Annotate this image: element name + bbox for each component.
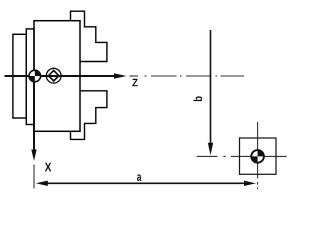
bottom jaw — [71, 91, 107, 140]
Z centerline dash-dot — [130, 75, 245, 77]
chuck back plate inner — [26, 29, 34, 125]
chuck body — [34, 21, 80, 132]
X axis arrowhead — [31, 150, 36, 162]
reference point symbol (circle with diamond) — [46, 68, 61, 83]
X axis line — [33, 80, 35, 150]
a right arrowhead — [244, 181, 256, 186]
label Z — [132, 79, 137, 87]
a dimension line — [44, 182, 248, 184]
W vertical centerline — [257, 122, 259, 189]
a left arrowhead — [36, 181, 48, 186]
label b — [193, 96, 202, 101]
b dimension line — [210, 30, 212, 144]
label X — [45, 163, 52, 172]
workpiece square — [240, 138, 277, 174]
workpiece zero symbol W — [251, 150, 264, 163]
chuck back plate outer — [13, 34, 26, 118]
label a — [137, 174, 142, 181]
top jaw — [71, 11, 107, 61]
Z axis arrowhead — [114, 73, 127, 79]
W horizontal centerline — [197, 155, 287, 157]
machine zero symbol M — [29, 70, 41, 82]
b arrowhead — [208, 143, 213, 155]
Z axis line — [5, 75, 116, 77]
X axis extension centerline — [33, 165, 35, 189]
